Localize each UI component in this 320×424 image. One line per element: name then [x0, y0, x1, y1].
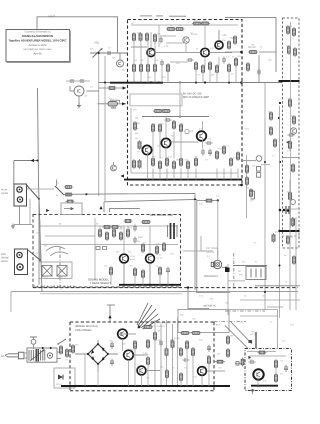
wire — [264, 83, 266, 311]
wire — [127, 226, 129, 230]
wire — [159, 275, 161, 285]
resistor R18 — [228, 40, 231, 50]
wire — [118, 333, 136, 335]
resistor R26 — [152, 123, 155, 133]
wire — [218, 30, 220, 41]
resistor R51 — [287, 235, 290, 245]
wire — [29, 199, 31, 225]
wire — [290, 22, 292, 228]
svg-text:R-EQ: R-EQ — [42, 276, 48, 279]
ground — [77, 103, 81, 108]
wire — [223, 169, 225, 180]
power module right dashed edge — [213, 322, 215, 391]
wire — [214, 361, 225, 363]
wire — [255, 285, 300, 287]
wire — [231, 322, 252, 344]
wire — [242, 82, 283, 84]
resistor R31 — [159, 160, 162, 170]
wire — [78, 96, 80, 105]
capacitor C7 — [201, 149, 205, 156]
play head PH1 gap b — [17, 197, 22, 202]
junction — [140, 81, 142, 83]
wire — [147, 365, 149, 387]
junction — [278, 117, 280, 119]
svg-text:HEAD: HEAD — [2, 192, 9, 195]
wire — [57, 351, 61, 353]
resistor R73 — [110, 266, 113, 276]
elcap C21 — [110, 359, 114, 366]
junction — [158, 82, 160, 84]
resistor R84 — [134, 340, 137, 350]
wire — [173, 169, 175, 180]
resistor R69 — [141, 221, 151, 224]
wire — [160, 35, 176, 37]
svg-text:1M: 1M — [90, 86, 93, 89]
svg-text:B 10k: B 10k — [174, 337, 180, 340]
solder arrow — [31, 159, 34, 162]
junction — [217, 199, 219, 201]
monitor bus — [64, 192, 195, 195]
wire — [195, 169, 197, 180]
svg-text:B+ 9V: B+ 9V — [134, 240, 141, 243]
microphone jack J1 — [117, 60, 124, 67]
junction — [264, 161, 266, 163]
wire — [149, 263, 151, 285]
wire — [165, 146, 167, 158]
resistor R98 — [215, 360, 224, 363]
wire — [202, 140, 204, 148]
wire — [14, 160, 38, 162]
wire — [128, 360, 130, 386]
resistor R64 — [99, 228, 102, 238]
resistor R66 — [113, 228, 116, 238]
wire — [228, 72, 230, 83]
wire — [277, 310, 279, 349]
resistor R30 — [152, 157, 155, 167]
capacitor C11 — [257, 69, 261, 76]
svg-text:0.05: 0.05 — [222, 34, 227, 37]
wire — [204, 25, 206, 48]
resistor R83 — [143, 326, 153, 329]
resistor R109 — [123, 220, 132, 223]
svg-text:C 05: C 05 — [135, 122, 140, 125]
resistor R113 — [64, 193, 73, 196]
play head PH1 box — [14, 184, 27, 206]
return bus — [104, 199, 197, 201]
oscillator transistor Q14 — [290, 128, 296, 134]
module bottom dashed rail — [33, 287, 298, 289]
junction — [279, 161, 281, 163]
junction — [171, 284, 173, 286]
resistor R115 — [204, 199, 213, 202]
svg-text:AC 40: AC 40 — [157, 257, 164, 260]
junction — [195, 81, 197, 83]
ground bus of power section — [61, 385, 230, 387]
resistor R2 — [139, 32, 142, 42]
interstage transformer T3 — [168, 223, 178, 239]
wire — [233, 265, 267, 267]
solder arrow — [122, 102, 125, 105]
resistor R32 — [166, 157, 169, 167]
wire — [186, 349, 188, 387]
resistor R9 — [133, 63, 136, 73]
resistor R94 — [192, 347, 195, 357]
svg-text:two track rec mono cass: two track rec mono cass — [24, 48, 53, 51]
resistor R75 — [142, 269, 145, 279]
input jack J2 — [74, 86, 84, 96]
wire — [98, 103, 127, 105]
wire — [217, 200, 219, 248]
resistor R16 — [209, 61, 212, 71]
wire — [267, 306, 283, 308]
wire — [230, 169, 232, 180]
switch pin 3 — [260, 269, 262, 278]
solder arrow — [46, 209, 49, 212]
rec-play switch S1a — [27, 185, 40, 199]
resistor R28 — [173, 120, 176, 130]
oscillator coil T1 — [183, 37, 189, 43]
resistor R24 — [134, 121, 137, 131]
wire — [133, 72, 135, 83]
wire — [166, 320, 168, 386]
wire — [180, 381, 182, 387]
function switch S2 box — [246, 267, 266, 280]
ground — [11, 224, 15, 229]
junction — [179, 82, 181, 84]
B+ supply bus — [99, 82, 280, 84]
on-off switch S3 — [58, 339, 66, 344]
elcap C17 — [166, 267, 170, 274]
resistor R14 — [195, 61, 198, 71]
resistor R5 — [166, 28, 176, 31]
wire — [98, 53, 100, 196]
wire — [134, 349, 136, 387]
svg-text:AC: AC — [1, 355, 5, 358]
power pack enclosure — [27, 348, 57, 362]
resistor R100 — [227, 348, 230, 358]
fuse F1 — [30, 337, 37, 344]
resistor R20 — [228, 63, 231, 73]
wire — [275, 17, 277, 72]
wire — [195, 70, 197, 83]
wire — [247, 351, 276, 353]
resistor R105 — [133, 159, 136, 169]
wire — [183, 250, 205, 252]
record head RH1 box — [15, 249, 28, 275]
motor enclosure box — [178, 310, 229, 333]
transistor Q10 — [124, 350, 134, 360]
junction — [251, 389, 253, 391]
resistor R78 — [272, 233, 275, 243]
mechanical link dash-dot — [214, 321, 246, 323]
resistor R82 — [72, 344, 75, 354]
resistor R96 — [166, 369, 169, 379]
resistor R103 — [275, 373, 278, 383]
wire — [27, 188, 55, 190]
junction — [289, 230, 291, 232]
switch contact b — [103, 247, 107, 250]
volume pot VR1 — [93, 48, 103, 58]
capacitor C1 — [106, 51, 113, 55]
capacitor C28 — [79, 79, 86, 83]
transistor Q2 — [201, 48, 209, 56]
play head PH1 gap a — [17, 187, 22, 192]
wire — [149, 226, 151, 254]
wire — [45, 235, 95, 237]
switch contact block Xa — [42, 266, 52, 277]
wire — [225, 16, 276, 18]
junction — [201, 385, 203, 387]
AC plug P1 — [5, 352, 24, 359]
wire — [161, 67, 163, 83]
wire — [180, 132, 182, 159]
wire — [146, 370, 160, 372]
ground bus of track box — [119, 284, 181, 286]
wire — [133, 42, 135, 65]
resistor R49 — [289, 191, 292, 201]
track select module box — [33, 215, 181, 288]
junction — [187, 286, 189, 288]
resistor R77 — [291, 217, 294, 227]
wire — [283, 157, 300, 159]
wire — [97, 364, 99, 372]
transistor Q7 — [120, 254, 129, 263]
svg-text:BIAS: BIAS — [58, 276, 64, 279]
resistor R37 — [216, 150, 219, 160]
wire — [97, 340, 99, 344]
resistor R99 — [227, 335, 230, 345]
wire — [225, 326, 248, 349]
junction black marks — [279, 209, 282, 212]
wire — [204, 57, 206, 66]
wire — [255, 332, 257, 349]
motor control module box — [245, 349, 292, 391]
resistor R112 — [64, 186, 73, 189]
resistor R56 — [274, 138, 277, 148]
wire — [131, 46, 147, 48]
elcap C8 — [208, 149, 212, 156]
svg-text:TRACK SELECT: TRACK SELECT — [90, 281, 111, 285]
wire — [187, 288, 189, 309]
resistor R53 — [247, 62, 250, 72]
junction — [150, 81, 152, 83]
wire — [134, 276, 136, 285]
wire — [123, 226, 125, 254]
wire — [208, 364, 210, 387]
wire — [166, 42, 186, 44]
track switch wiper arcs — [46, 246, 65, 251]
power module left dashed edge — [69, 322, 71, 391]
wire — [257, 378, 259, 386]
wire — [117, 17, 119, 53]
resistor R57 — [250, 188, 253, 198]
resistor R97 — [208, 355, 211, 365]
wire — [249, 355, 286, 357]
wire — [209, 52, 232, 54]
transistor Q1 — [147, 49, 155, 57]
junction — [195, 385, 197, 387]
resistor R47 — [289, 140, 292, 150]
wire — [152, 132, 154, 159]
capacitor C4 — [187, 58, 194, 62]
transistor Q9 — [118, 329, 128, 339]
junction — [97, 385, 99, 387]
resistor R13 — [167, 63, 170, 73]
wire — [38, 88, 43, 292]
bias oscillator module box — [283, 18, 300, 248]
resistor R35 — [187, 160, 190, 170]
wire — [99, 87, 126, 89]
junction — [257, 385, 259, 387]
wire — [246, 155, 248, 218]
mechanical link dash-dot — [225, 310, 265, 312]
resistor R48 — [292, 163, 295, 173]
svg-text:EXT SPKR: EXT SPKR — [206, 247, 218, 250]
transistor Q13 — [253, 369, 263, 379]
wire — [285, 208, 300, 210]
wire — [133, 354, 148, 356]
junction — [279, 265, 281, 267]
wire — [131, 172, 238, 174]
wire — [155, 52, 201, 54]
wire — [25, 352, 27, 354]
junction — [37, 160, 39, 162]
junction — [98, 52, 100, 54]
svg-text:(9.15: (9.15 — [130, 255, 136, 258]
wire — [38, 199, 40, 285]
capacitor C10 — [288, 133, 295, 137]
solder arrow — [108, 315, 111, 318]
wire — [84, 354, 86, 386]
bias trap box — [39, 262, 72, 279]
wire — [142, 116, 209, 118]
wire — [258, 55, 260, 83]
svg-text:SPEAKER 8: SPEAKER 8 — [204, 275, 219, 278]
wire — [75, 353, 88, 355]
speed control rail — [251, 385, 278, 387]
junction — [204, 81, 206, 83]
connector — [236, 362, 239, 366]
svg-text:B+ 19V DC SW: B+ 19V DC SW — [183, 93, 202, 96]
capacitor C5 — [222, 57, 226, 64]
wire — [180, 169, 182, 180]
wire — [152, 169, 154, 180]
wire — [104, 56, 106, 201]
wire — [207, 370, 226, 372]
wire — [194, 193, 196, 290]
heavy rail — [279, 230, 300, 232]
resistor R87 — [154, 331, 157, 341]
wire — [237, 169, 239, 180]
wire — [122, 339, 124, 351]
solder arrow — [123, 86, 126, 89]
junction — [228, 81, 230, 83]
wire — [243, 160, 256, 162]
wire — [25, 357, 27, 359]
wire — [188, 308, 209, 310]
junction — [240, 51, 243, 54]
wire — [10, 292, 12, 312]
junction — [140, 385, 142, 387]
svg-text:1M: 1M — [280, 373, 283, 376]
transistor Q11 — [137, 366, 146, 375]
dotted trimmer — [185, 129, 189, 133]
resistor R22 — [153, 110, 163, 113]
wire — [154, 320, 156, 386]
junction — [176, 385, 178, 387]
junction — [264, 291, 266, 293]
resistor R72 — [163, 242, 166, 252]
wire — [87, 90, 99, 92]
resistor R34 — [180, 157, 183, 167]
resistor R29 — [180, 123, 183, 133]
wire — [218, 57, 220, 66]
elcap C20 — [110, 342, 114, 349]
wire — [14, 224, 32, 226]
svg-text:0.5A: 0.5A — [143, 352, 148, 355]
dashed segment — [282, 235, 300, 237]
wire — [19, 206, 21, 225]
svg-text:JACK 8: JACK 8 — [206, 251, 215, 254]
record head RH1 gap b — [17, 264, 23, 270]
resistor R7 — [192, 22, 202, 25]
wire — [120, 226, 122, 230]
wire — [170, 141, 198, 143]
solder arrow — [99, 206, 102, 209]
capacitor C3 — [160, 60, 164, 67]
wire — [279, 106, 281, 318]
resistor R11 — [147, 63, 150, 73]
capacitor C23 — [183, 358, 190, 362]
wire — [167, 72, 169, 83]
resistor R3 — [146, 32, 149, 42]
wire — [70, 90, 74, 92]
wire — [159, 132, 161, 159]
wire — [131, 24, 238, 26]
svg-text:Arrows in 1972: Arrows in 1972 — [29, 44, 47, 47]
resistor R74 — [134, 267, 137, 277]
wire — [240, 299, 300, 301]
resistor R43 — [288, 45, 291, 55]
wire — [94, 218, 96, 280]
wire — [66, 80, 90, 82]
wire — [107, 304, 115, 306]
wire — [140, 72, 142, 83]
svg-text:MOTOR AC: MOTOR AC — [204, 305, 217, 308]
wire — [140, 15, 152, 17]
wire — [201, 376, 203, 387]
wire — [295, 217, 297, 310]
resistor R114 — [65, 200, 74, 203]
speaker SP1 — [211, 260, 222, 268]
resistor R111 — [241, 357, 244, 366]
wire — [170, 61, 188, 63]
resistor R10 — [140, 63, 143, 73]
wire — [156, 15, 163, 17]
resistor R46 — [293, 115, 296, 125]
junction — [225, 267, 227, 269]
wire — [216, 169, 218, 180]
mechanical link dash-dot — [59, 247, 61, 290]
wire — [209, 70, 211, 83]
resistor R91 — [191, 332, 201, 335]
wire — [108, 353, 118, 355]
resistor R89 — [171, 339, 174, 349]
resistor R8 — [200, 22, 210, 25]
power module bottom dashed rail — [70, 390, 214, 392]
capacitor C16 — [133, 237, 137, 244]
pc board outline note — [130, 94, 182, 106]
